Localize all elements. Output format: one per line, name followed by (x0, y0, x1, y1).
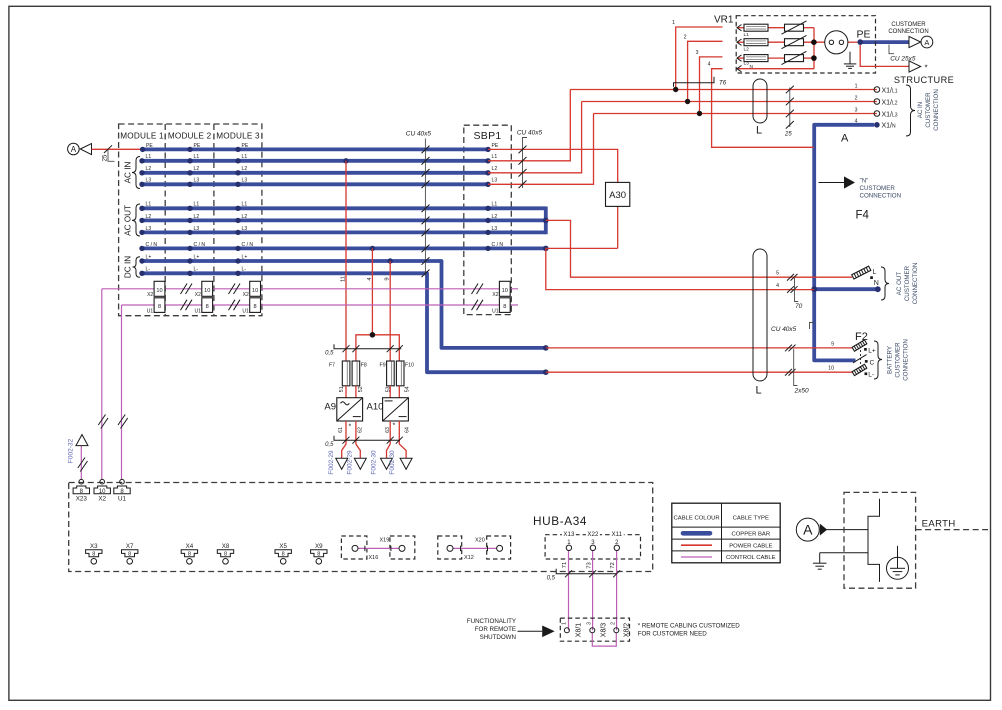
svg-text:AC OUT: AC OUT (124, 205, 133, 236)
svg-text:X19: X19 (380, 537, 390, 543)
svg-text:2: 2 (855, 95, 858, 101)
svg-text:CUSTOMER: CUSTOMER (895, 342, 902, 378)
svg-text:CONNECTION: CONNECTION (912, 263, 919, 305)
svg-text:2: 2 (684, 34, 687, 40)
svg-text:8: 8 (128, 551, 131, 557)
svg-text:C / N: C / N (242, 242, 254, 248)
svg-text:A10: A10 (367, 402, 384, 413)
svg-text:3: 3 (587, 622, 593, 625)
svg-text:L3: L3 (242, 226, 248, 232)
svg-text:X22: X22 (587, 531, 599, 538)
svg-text:X1/L3: X1/L3 (882, 111, 898, 118)
svg-text:CONNECTION: CONNECTION (888, 29, 928, 35)
svg-text:C: C (870, 359, 875, 366)
svg-text:L2: L2 (492, 214, 498, 220)
svg-text:X8/2: X8/2 (624, 623, 631, 638)
svg-text:61: 61 (338, 427, 344, 433)
svg-text:73: 73 (587, 562, 593, 568)
svg-text:L2: L2 (194, 166, 200, 172)
svg-text:L3: L3 (194, 178, 200, 184)
svg-text:L-: L- (868, 372, 874, 379)
svg-text:X1/L2: X1/L2 (882, 99, 898, 106)
svg-text:L1: L1 (492, 154, 498, 160)
svg-text:0,5: 0,5 (547, 575, 556, 581)
svg-text:64: 64 (405, 427, 411, 433)
svg-text:L3: L3 (146, 226, 152, 232)
svg-text:DC IN: DC IN (124, 256, 133, 278)
svg-text:70: 70 (795, 303, 803, 310)
svg-text:8: 8 (317, 551, 320, 557)
svg-text:L+: L+ (242, 254, 248, 260)
svg-text:U1: U1 (118, 496, 127, 503)
svg-text:X8/1: X8/1 (576, 623, 583, 638)
svg-text:51: 51 (339, 386, 345, 392)
svg-text:FUNCTIONALITY: FUNCTIONALITY (467, 618, 516, 625)
svg-text:HUB-A34: HUB-A34 (533, 514, 587, 528)
svg-text:L-: L- (242, 267, 247, 273)
svg-text:*: * (349, 424, 352, 431)
svg-text:F002-30: F002-30 (371, 450, 378, 475)
svg-text:CONTROL CABLE: CONTROL CABLE (726, 555, 776, 561)
svg-text:8: 8 (254, 304, 257, 310)
svg-text:CONNECTION: CONNECTION (903, 339, 910, 381)
svg-text:X1/L1: X1/L1 (882, 87, 898, 94)
svg-text:MODULE 1: MODULE 1 (120, 132, 164, 141)
svg-text:L2: L2 (744, 47, 750, 53)
svg-text:L1: L1 (744, 32, 750, 38)
svg-text:AC OUT: AC OUT (896, 272, 903, 296)
svg-text:CUSTOMER: CUSTOMER (925, 92, 932, 128)
svg-text:54: 54 (404, 386, 410, 392)
svg-text:L2: L2 (492, 166, 498, 172)
svg-text:COPPER BAR: COPPER BAR (731, 531, 770, 537)
svg-text:L2: L2 (242, 214, 248, 220)
svg-text:C / N: C / N (492, 242, 504, 248)
svg-text:*: * (393, 423, 396, 430)
svg-text:CU 40x5: CU 40x5 (771, 326, 797, 333)
svg-text:2x50: 2x50 (794, 388, 809, 395)
svg-text:8: 8 (188, 551, 191, 557)
svg-text:10: 10 (502, 288, 508, 294)
svg-text:CUSTOMER: CUSTOMER (891, 22, 926, 28)
svg-text:A: A (924, 38, 929, 47)
svg-text:C / N: C / N (146, 242, 158, 248)
svg-text:X2: X2 (98, 496, 106, 503)
svg-text:PE: PE (857, 29, 871, 41)
svg-text:CUSTOMER: CUSTOMER (904, 265, 911, 301)
svg-text:X23: X23 (76, 496, 88, 503)
svg-text:STRUCTURE: STRUCTURE (894, 75, 954, 85)
svg-text:F9: F9 (380, 362, 386, 368)
svg-text:X8/3: X8/3 (600, 623, 607, 638)
svg-text:0,5: 0,5 (325, 350, 334, 356)
svg-text:POWER CABLE: POWER CABLE (729, 543, 772, 549)
svg-text:U1: U1 (242, 308, 249, 314)
svg-text:* REMOTE CABLING CUSTOMIZED: * REMOTE CABLING CUSTOMIZED (638, 623, 741, 630)
svg-text:L+: L+ (194, 254, 200, 260)
svg-text:10: 10 (828, 366, 834, 372)
svg-text:A30: A30 (609, 190, 626, 201)
svg-text:F7: F7 (329, 362, 335, 368)
svg-text:X12: X12 (464, 555, 474, 561)
svg-text:L3: L3 (146, 178, 152, 184)
svg-text:L3: L3 (242, 178, 248, 184)
svg-text:U1: U1 (492, 308, 499, 314)
svg-text:1: 1 (562, 622, 568, 625)
svg-text:"N": "N" (860, 178, 869, 185)
svg-text:F4: F4 (856, 210, 870, 222)
svg-text:PE: PE (146, 143, 153, 149)
svg-text:72: 72 (610, 562, 616, 568)
svg-text:*: * (925, 64, 928, 73)
svg-text:53: 53 (385, 386, 391, 392)
svg-text:10: 10 (252, 288, 258, 294)
svg-text:MODULE 3: MODULE 3 (216, 132, 260, 141)
svg-text:X5: X5 (279, 543, 287, 550)
svg-text:5: 5 (776, 271, 779, 277)
svg-text:CU 40x5: CU 40x5 (517, 130, 543, 137)
svg-text:63: 63 (385, 427, 391, 433)
svg-text:71: 71 (562, 562, 568, 568)
svg-text:10: 10 (156, 288, 162, 294)
svg-text:EARTH: EARTH (922, 519, 956, 530)
svg-text:MODULE 2: MODULE 2 (168, 132, 212, 141)
svg-text:2: 2 (610, 622, 616, 625)
svg-text:X9: X9 (315, 543, 323, 550)
svg-text:8: 8 (503, 304, 506, 310)
svg-text:L1: L1 (492, 202, 498, 208)
svg-text:L3: L3 (492, 178, 498, 184)
svg-text:F002-30: F002-30 (389, 450, 396, 475)
svg-text:25: 25 (103, 154, 109, 161)
svg-text:L+: L+ (868, 347, 876, 354)
svg-text:X2: X2 (243, 292, 249, 298)
svg-text:FOR CUSTOMER NEED: FOR CUSTOMER NEED (638, 631, 708, 638)
svg-text:0,5: 0,5 (325, 442, 334, 448)
svg-text:L1: L1 (146, 202, 152, 208)
svg-text:AC IN: AC IN (124, 161, 133, 183)
svg-text:4: 4 (708, 62, 711, 68)
svg-text:L3: L3 (194, 226, 200, 232)
svg-text:L1: L1 (194, 154, 200, 160)
svg-text:F002-29: F002-29 (328, 450, 335, 475)
svg-text:BATTERY: BATTERY (887, 346, 894, 374)
svg-text:SHUTDOWN: SHUTDOWN (480, 634, 516, 641)
svg-text:9: 9 (385, 277, 391, 280)
svg-text:L3: L3 (492, 226, 498, 232)
svg-text:C / N: C / N (194, 242, 206, 248)
svg-text:CABLE TYPE: CABLE TYPE (733, 516, 769, 522)
svg-text:X2: X2 (492, 292, 498, 298)
svg-text:62: 62 (358, 427, 364, 433)
svg-text:L+: L+ (146, 254, 152, 260)
svg-text:F002-32: F002-32 (68, 439, 75, 464)
svg-text:X2: X2 (147, 292, 153, 298)
svg-text:CONNECTION: CONNECTION (933, 89, 940, 131)
svg-text:U1: U1 (194, 308, 201, 314)
svg-text:L2: L2 (194, 214, 200, 220)
svg-text:CONNECTION: CONNECTION (860, 192, 902, 199)
svg-text:AC IN: AC IN (917, 102, 924, 119)
svg-text:8: 8 (282, 551, 285, 557)
svg-text:X1/N: X1/N (882, 123, 897, 130)
svg-text:X16: X16 (369, 555, 379, 561)
svg-text:L2: L2 (146, 214, 152, 220)
svg-text:L2: L2 (146, 166, 152, 172)
svg-text:SBP1: SBP1 (473, 130, 501, 142)
svg-text:A: A (71, 145, 77, 154)
svg-text:F8: F8 (361, 362, 367, 368)
svg-text:A: A (841, 133, 849, 145)
svg-text:CU 40x5: CU 40x5 (406, 131, 432, 138)
svg-text:PE: PE (242, 143, 249, 149)
svg-text:8: 8 (92, 551, 95, 557)
svg-text:F002-29: F002-29 (347, 450, 354, 475)
svg-text:25: 25 (784, 132, 792, 138)
svg-text:1: 1 (855, 83, 858, 89)
svg-text:L-: L- (194, 267, 199, 273)
svg-text:L3: L3 (744, 61, 750, 67)
svg-text:10: 10 (99, 489, 106, 495)
svg-text:X4: X4 (186, 543, 194, 550)
svg-text:L2: L2 (242, 166, 248, 172)
svg-text:L1: L1 (194, 202, 200, 208)
svg-text:L1: L1 (146, 154, 152, 160)
svg-text:52: 52 (358, 386, 364, 392)
svg-text:PE: PE (492, 143, 499, 149)
svg-text:X20: X20 (475, 537, 485, 543)
svg-text:1: 1 (672, 20, 675, 26)
svg-text:3: 3 (855, 107, 858, 113)
svg-text:L1: L1 (242, 202, 248, 208)
svg-text:CABLE COLOUR: CABLE COLOUR (674, 516, 720, 522)
svg-text:4: 4 (776, 283, 779, 289)
svg-text:U1: U1 (147, 308, 154, 314)
svg-text:9: 9 (831, 341, 834, 347)
svg-text:X3: X3 (90, 543, 98, 550)
svg-text:L: L (873, 269, 877, 276)
svg-text:F10: F10 (405, 362, 414, 368)
svg-text:8: 8 (206, 304, 209, 310)
svg-text:CUSTOMER: CUSTOMER (860, 185, 896, 192)
svg-text:X7: X7 (126, 543, 134, 550)
svg-text:VR1: VR1 (714, 15, 734, 26)
svg-text:CU 25x5: CU 25x5 (890, 56, 916, 63)
svg-text:X8: X8 (222, 543, 230, 550)
svg-text:N: N (874, 280, 879, 287)
svg-text:A: A (803, 522, 813, 538)
svg-text:T6: T6 (719, 80, 727, 87)
svg-text:L1: L1 (242, 154, 248, 160)
svg-text:3: 3 (696, 50, 699, 56)
svg-text:L-: L- (146, 267, 151, 273)
svg-text:A9: A9 (324, 402, 336, 413)
svg-text:L: L (756, 385, 762, 397)
svg-text:PE: PE (194, 143, 201, 149)
svg-text:11: 11 (341, 276, 347, 282)
svg-text:L: L (756, 125, 762, 137)
svg-text:8: 8 (224, 551, 227, 557)
svg-text:X11: X11 (612, 531, 623, 538)
svg-text:8: 8 (158, 304, 161, 310)
svg-text:10: 10 (204, 288, 210, 294)
svg-text:N: N (750, 64, 754, 70)
svg-text:4: 4 (855, 119, 858, 125)
svg-text:FOR REMOTE: FOR REMOTE (475, 626, 516, 633)
svg-text:X13: X13 (563, 531, 575, 538)
svg-text:X2: X2 (195, 292, 201, 298)
